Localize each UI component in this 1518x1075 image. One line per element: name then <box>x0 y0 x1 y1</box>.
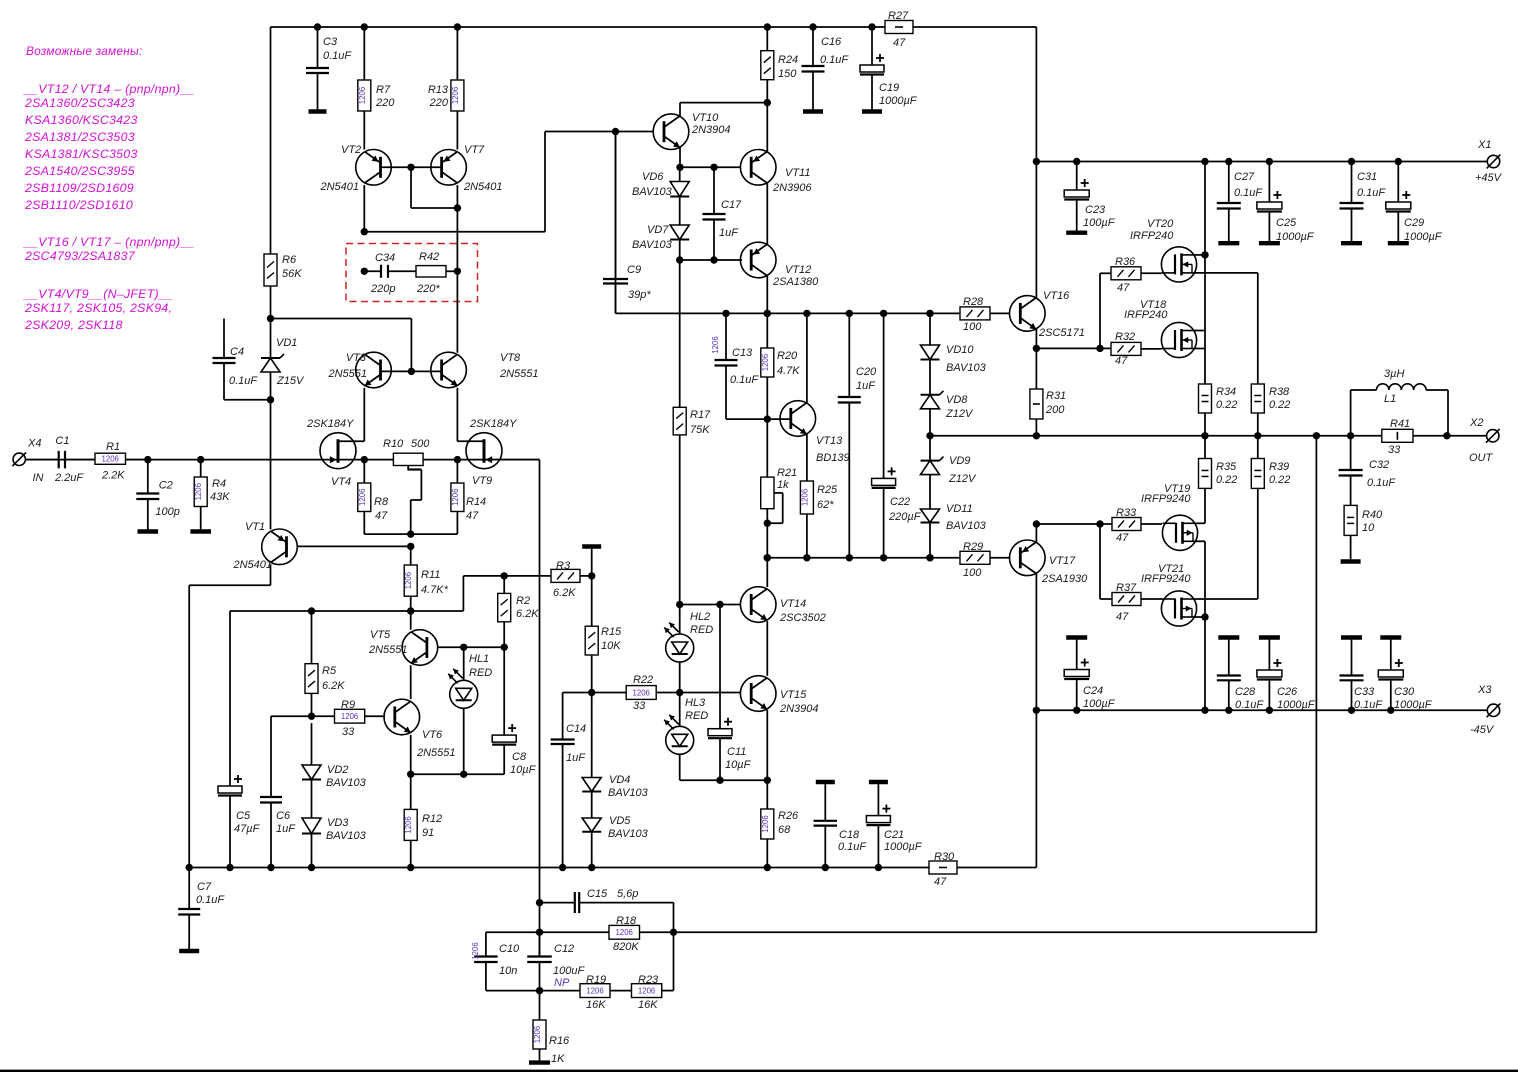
resistor R36 <box>1100 256 1161 348</box>
svg-text:L1: L1 <box>1384 393 1396 405</box>
svg-text:220*: 220* <box>416 283 440 295</box>
svg-text:C8: C8 <box>512 751 527 763</box>
svg-text:R30: R30 <box>934 851 955 863</box>
svg-text:X4: X4 <box>27 438 41 450</box>
terminal X3 <box>1470 684 1500 736</box>
svg-text:1206: 1206 <box>638 987 655 996</box>
svg-text:BAV103: BAV103 <box>946 362 987 374</box>
resistor R10 <box>361 438 431 466</box>
resistor R37 <box>1100 524 1162 623</box>
svg-text:C12: C12 <box>554 943 574 955</box>
svg-text:R15: R15 <box>601 626 622 638</box>
svg-text:1206: 1206 <box>711 336 720 353</box>
svg-text:1206: 1206 <box>404 816 413 833</box>
svg-text:100: 100 <box>963 567 982 579</box>
svg-text:68: 68 <box>778 824 791 836</box>
capacitor C10 <box>471 932 540 990</box>
svg-text:VT3: VT3 <box>346 352 367 364</box>
resistor R31 <box>1030 348 1066 439</box>
resistor R13 <box>428 23 464 111</box>
resistor R7 <box>358 23 395 111</box>
svg-text:1uF: 1uF <box>566 752 586 764</box>
svg-text:2SC4793/2SA1837: 2SC4793/2SA1837 <box>24 249 136 263</box>
transistor VT15 <box>740 676 818 715</box>
transistor VT19 <box>1141 483 1198 550</box>
diode VD5 <box>582 792 648 872</box>
wire VT19 leads <box>1197 523 1209 620</box>
wire VT3 emitter <box>338 388 364 442</box>
svg-text:VD8: VD8 <box>946 394 968 406</box>
svg-text:VT14: VT14 <box>780 598 806 610</box>
svg-text:VT7: VT7 <box>464 144 485 156</box>
capacitor C23 <box>1064 158 1115 233</box>
svg-text:R4: R4 <box>212 478 226 490</box>
svg-text:100µF: 100µF <box>1083 698 1116 710</box>
resistor R12 <box>404 774 442 871</box>
svg-text:VD7: VD7 <box>647 224 669 236</box>
svg-text:IRFP9240: IRFP9240 <box>1141 573 1191 585</box>
wire VT2 collector <box>361 128 620 236</box>
capacitor C8 <box>464 647 537 776</box>
svg-text:VT15: VT15 <box>780 689 807 701</box>
capacitor C1 <box>54 435 95 484</box>
svg-text:C16: C16 <box>821 36 842 48</box>
svg-text:+45V: +45V <box>1475 172 1503 184</box>
svg-text:150: 150 <box>778 68 797 80</box>
resistor R41 <box>1382 418 1451 456</box>
svg-text:33: 33 <box>342 726 355 738</box>
terminal X1 <box>1475 139 1503 184</box>
svg-text:VT8: VT8 <box>500 352 521 364</box>
svg-text:C29: C29 <box>1404 217 1424 229</box>
svg-text:C10: C10 <box>499 943 520 955</box>
svg-text:X2: X2 <box>1469 417 1483 429</box>
svg-text:VT4: VT4 <box>331 476 351 488</box>
svg-text:BAV103: BAV103 <box>608 828 649 840</box>
transistor VT21 <box>1141 563 1197 626</box>
svg-text:200: 200 <box>1045 404 1065 416</box>
svg-text:43K: 43K <box>210 491 230 503</box>
wire out rail <box>930 435 1487 437</box>
svg-text:2N5401: 2N5401 <box>319 181 359 193</box>
resistor R26 <box>761 780 799 871</box>
diode VD4 <box>582 693 648 800</box>
resistor R15 <box>585 576 622 696</box>
svg-text:R16: R16 <box>549 1035 570 1047</box>
svg-text:KSA1360/KSC3423: KSA1360/KSC3423 <box>25 113 138 127</box>
wire VT8 emitter <box>457 388 484 442</box>
wire base net <box>230 572 551 611</box>
capacitor C27 <box>1217 158 1264 243</box>
wire VT9 gate <box>484 459 540 461</box>
svg-text:1000µF: 1000µF <box>1276 231 1315 243</box>
svg-text:C13: C13 <box>732 347 753 359</box>
svg-text:VD1: VD1 <box>276 337 297 349</box>
svg-text:IRFP240: IRFP240 <box>1130 230 1174 242</box>
transistor VT18 <box>1124 299 1197 358</box>
svg-text:1uF: 1uF <box>719 227 739 239</box>
transistor VT14 <box>740 587 825 624</box>
svg-text:1206: 1206 <box>471 942 480 959</box>
svg-text:2SC3502: 2SC3502 <box>779 612 826 624</box>
zener VD8 <box>921 360 974 440</box>
svg-text:1206: 1206 <box>194 483 203 500</box>
transistor VT16 <box>1010 290 1085 339</box>
transistor VT2 <box>319 111 391 193</box>
resistor R5 <box>305 607 345 716</box>
resistor R30 <box>929 851 957 888</box>
diode VD7 <box>632 197 689 264</box>
svg-text:R13: R13 <box>428 84 449 96</box>
svg-text:VT12: VT12 <box>785 264 811 276</box>
resistor R4 <box>190 456 230 532</box>
transistor VT7 <box>431 111 503 193</box>
svg-text:R14: R14 <box>466 496 486 508</box>
svg-text:2SB1109/2SD1609: 2SB1109/2SD1609 <box>24 181 134 195</box>
svg-text:1206: 1206 <box>358 489 367 506</box>
svg-text:R27: R27 <box>888 10 909 22</box>
wire VT17 em <box>1033 520 1104 542</box>
resistor R2 <box>498 576 540 647</box>
svg-text:1206: 1206 <box>358 87 367 104</box>
svg-text:VT10: VT10 <box>692 112 719 124</box>
svg-text:56K: 56K <box>282 268 302 280</box>
resistor R19 <box>540 974 632 1011</box>
resistor R24 <box>761 23 798 102</box>
svg-text:1K: 1K <box>551 1053 565 1065</box>
svg-text:500: 500 <box>411 438 430 450</box>
resistor R35 <box>1199 436 1238 524</box>
svg-text:10: 10 <box>1362 522 1375 534</box>
capacitor C2 <box>136 456 180 532</box>
svg-text:2N5551: 2N5551 <box>368 644 408 656</box>
terminal X4 <box>12 438 58 485</box>
svg-text:R20: R20 <box>777 350 798 362</box>
svg-text:R9: R9 <box>341 699 355 711</box>
svg-text:2N3904: 2N3904 <box>779 703 819 715</box>
capacitor C21 <box>866 782 922 871</box>
svg-text:X3: X3 <box>1477 684 1492 696</box>
svg-text:C7: C7 <box>197 881 212 893</box>
border bottom <box>0 1070 1518 1072</box>
resistor R32 <box>1100 331 1161 367</box>
svg-text:1000µF: 1000µF <box>1277 699 1316 711</box>
svg-text:16K: 16K <box>638 999 658 1011</box>
resistor R21 <box>761 419 797 561</box>
led HL2 <box>664 605 713 663</box>
svg-text:R42: R42 <box>419 251 439 263</box>
svg-text:BAV103: BAV103 <box>326 777 367 789</box>
svg-text:62*: 62* <box>817 499 834 511</box>
capacitor C3 <box>306 23 352 111</box>
svg-text:1206: 1206 <box>341 712 358 721</box>
wire driver rail <box>767 557 931 559</box>
zener VD9 <box>921 436 977 509</box>
svg-text:C25: C25 <box>1276 217 1297 229</box>
zener VD1 <box>261 315 305 404</box>
svg-text:VT5: VT5 <box>370 629 391 641</box>
svg-text:RED: RED <box>690 624 713 636</box>
resistor R20 <box>761 310 800 423</box>
wire VT5 base <box>438 644 508 651</box>
capacitor C20 <box>838 310 877 562</box>
svg-text:R21: R21 <box>777 467 797 479</box>
capacitor C29 <box>1386 158 1443 243</box>
svg-text:VD6: VD6 <box>642 171 664 183</box>
svg-text:BAV103: BAV103 <box>632 239 673 251</box>
svg-text:R26: R26 <box>778 810 799 822</box>
svg-text:0.1uF: 0.1uF <box>1234 187 1263 199</box>
wire VT11-VT12 <box>766 183 768 244</box>
wire R9-C6 <box>260 716 312 871</box>
svg-text:Z12V: Z12V <box>948 473 977 485</box>
transistor VT3 <box>327 352 391 388</box>
svg-text:0.1uF: 0.1uF <box>196 894 225 906</box>
svg-text:BAV103: BAV103 <box>608 787 649 799</box>
transistor VT11 <box>714 150 812 195</box>
svg-text:2N3906: 2N3906 <box>772 182 812 194</box>
svg-text:R39: R39 <box>1269 461 1289 473</box>
wire VT21 leads <box>1196 599 1258 714</box>
capacitor C24 <box>1064 638 1115 715</box>
wire VT12 col <box>764 276 771 317</box>
diode VD11 <box>921 503 987 562</box>
svg-text:R28: R28 <box>963 296 984 308</box>
svg-text:47: 47 <box>1116 532 1129 544</box>
svg-text:2N5551: 2N5551 <box>416 747 456 759</box>
capacitor C11 <box>708 605 752 784</box>
svg-text:R29: R29 <box>963 541 983 553</box>
svg-text:R33: R33 <box>1116 507 1137 519</box>
wire VT14 base <box>676 601 740 608</box>
resistor R33 <box>1100 507 1162 544</box>
svg-text:C14: C14 <box>566 723 586 735</box>
svg-text:1000µF: 1000µF <box>1404 231 1443 243</box>
wire VT1 base <box>297 543 414 550</box>
wire bias rail <box>616 132 931 314</box>
svg-text:220: 220 <box>429 97 449 109</box>
svg-text:2.2uF: 2.2uF <box>54 472 84 484</box>
svg-text:C9: C9 <box>627 264 641 276</box>
svg-text:0.1uF: 0.1uF <box>1354 699 1383 711</box>
svg-text:__VT12 / VT14 – (pnp/npn)__: __VT12 / VT14 – (pnp/npn)__ <box>23 82 195 96</box>
transistor VT4 <box>306 418 356 488</box>
replacement notes <box>23 44 195 332</box>
svg-text:VD9: VD9 <box>949 455 970 467</box>
wire feedback <box>674 436 1317 933</box>
svg-text:820K: 820K <box>613 941 639 953</box>
svg-text:0.1uF: 0.1uF <box>730 374 759 386</box>
wire ground rail <box>189 867 929 869</box>
svg-text:1206: 1206 <box>761 354 770 371</box>
wire mos drains <box>1196 158 1209 384</box>
svg-text:100: 100 <box>963 321 982 333</box>
capacitor C33 <box>1340 638 1384 715</box>
svg-text:R34: R34 <box>1216 386 1236 398</box>
diode VD3 <box>302 780 367 872</box>
svg-text:R24: R24 <box>778 54 798 66</box>
svg-text:0.1uF: 0.1uF <box>1357 187 1386 199</box>
svg-text:1206: 1206 <box>761 815 770 832</box>
resistor R17 <box>673 260 711 605</box>
svg-text:R11: R11 <box>421 569 440 581</box>
svg-text:1206: 1206 <box>616 928 633 937</box>
svg-text:VT16: VT16 <box>1043 290 1070 302</box>
svg-text:C2: C2 <box>159 480 173 492</box>
svg-text:BAV103: BAV103 <box>326 830 367 842</box>
transistor VT13 <box>767 401 849 464</box>
svg-text:R17: R17 <box>690 409 711 421</box>
wire VT14 col <box>764 554 771 587</box>
wire R10 wiper <box>407 466 421 535</box>
svg-text:VT9: VT9 <box>472 475 492 487</box>
svg-text:R37: R37 <box>1116 582 1137 594</box>
wire VT10 emitter <box>676 148 717 172</box>
svg-text:1206: 1206 <box>533 1026 542 1043</box>
svg-text:R2: R2 <box>516 595 530 607</box>
svg-text:VD3: VD3 <box>327 817 349 829</box>
wire R6 branch <box>270 27 272 319</box>
svg-text:47: 47 <box>375 510 388 522</box>
wire VT16 col <box>1035 162 1037 298</box>
svg-text:VT20: VT20 <box>1147 218 1174 230</box>
svg-text:6.2K: 6.2K <box>516 608 539 620</box>
svg-text:6.2K: 6.2K <box>553 587 576 599</box>
wire VT16 em <box>1033 329 1104 352</box>
svg-text:47: 47 <box>1117 282 1130 294</box>
diode VD10 <box>921 310 987 374</box>
svg-text:100µF: 100µF <box>1083 217 1116 229</box>
svg-text:BAV103: BAV103 <box>946 520 987 532</box>
svg-text:C33: C33 <box>1354 686 1375 698</box>
svg-text:C28: C28 <box>1235 686 1256 698</box>
svg-text:IN: IN <box>33 472 44 484</box>
svg-text:Возможные замены:: Возможные замены: <box>26 44 142 58</box>
svg-text:1000µF: 1000µF <box>1394 699 1433 711</box>
svg-text:X1: X1 <box>1477 139 1491 151</box>
resistor R11 <box>404 546 448 614</box>
svg-text:1000µF: 1000µF <box>879 95 918 107</box>
node fb <box>1313 432 1320 439</box>
wire VT15 em <box>764 710 771 784</box>
svg-text:1000µF: 1000µF <box>884 841 923 853</box>
resistor R42 <box>416 251 461 295</box>
svg-text:220µF: 220µF <box>888 511 922 523</box>
svg-text:2SA1360/2SC3423: 2SA1360/2SC3423 <box>24 96 135 110</box>
svg-text:2SB1110/2SD1610: 2SB1110/2SD1610 <box>24 198 133 212</box>
svg-text:R6: R6 <box>282 254 297 266</box>
svg-text:C17: C17 <box>721 199 742 211</box>
capacitor C16 <box>802 23 850 111</box>
resistor R27 <box>885 10 913 49</box>
svg-text:10K: 10K <box>601 640 621 652</box>
transistor VT5 <box>368 611 438 665</box>
diode VD6 <box>632 167 689 198</box>
svg-text:R22: R22 <box>633 674 653 686</box>
svg-text:2SK184Y: 2SK184Y <box>306 418 354 430</box>
svg-text:BAV103: BAV103 <box>632 186 673 198</box>
ground R3 <box>582 547 601 576</box>
svg-text:R41: R41 <box>1390 418 1410 430</box>
resistor R38 <box>1251 384 1290 439</box>
wire VT8 collector <box>456 271 458 352</box>
svg-text:R18: R18 <box>616 915 637 927</box>
capacitor C19 <box>860 23 918 111</box>
svg-text:47: 47 <box>893 37 906 49</box>
dashed box <box>346 244 478 302</box>
svg-text:0.22: 0.22 <box>1269 399 1290 411</box>
svg-text:47: 47 <box>466 510 479 522</box>
svg-text:6.2K: 6.2K <box>322 680 345 692</box>
terminal X2 <box>1469 417 1500 464</box>
svg-text:0.1uF: 0.1uF <box>1235 699 1264 711</box>
svg-text:__VT16 / VT17 – (npn/pnp)__: __VT16 / VT17 – (npn/pnp)__ <box>23 235 195 249</box>
svg-text:R38: R38 <box>1269 386 1290 398</box>
svg-text:2SK184Y: 2SK184Y <box>469 418 517 430</box>
svg-text:C21: C21 <box>884 829 904 841</box>
svg-text:C24: C24 <box>1083 685 1103 697</box>
svg-text:10µF: 10µF <box>725 759 752 771</box>
svg-text:C34: C34 <box>375 252 395 264</box>
wire left bias <box>271 319 412 372</box>
svg-text:R36: R36 <box>1115 256 1136 268</box>
wire VT7 collector <box>456 185 458 271</box>
svg-text:__VT4/VT9__(N–JFET)__: __VT4/VT9__(N–JFET)__ <box>23 287 173 301</box>
svg-text:33: 33 <box>633 700 646 712</box>
svg-text:BD139: BD139 <box>816 452 850 464</box>
svg-text:C3: C3 <box>323 36 338 48</box>
svg-text:1k: 1k <box>777 479 789 491</box>
resistor R3 <box>551 560 595 599</box>
svg-text:2SA1381/2SC3503: 2SA1381/2SC3503 <box>24 130 135 144</box>
svg-text:R5: R5 <box>322 665 337 677</box>
svg-text:2SC5171: 2SC5171 <box>1038 327 1085 339</box>
svg-text:4.7K: 4.7K <box>777 365 800 377</box>
svg-text:KSA1381/KSC3503: KSA1381/KSC3503 <box>25 147 138 161</box>
svg-text:RED: RED <box>469 667 492 679</box>
resistor R34 <box>1199 384 1238 439</box>
svg-text:VT17: VT17 <box>1049 555 1076 567</box>
capacitor C13 <box>711 310 767 419</box>
svg-text:VD5: VD5 <box>609 815 631 827</box>
wire VT11 em <box>766 103 768 152</box>
svg-text:VT13: VT13 <box>816 435 843 447</box>
svg-text:-45V: -45V <box>1470 724 1495 736</box>
svg-text:R3: R3 <box>556 560 571 572</box>
svg-text:2N5551: 2N5551 <box>327 368 367 380</box>
svg-text:VD11: VD11 <box>946 503 973 515</box>
wire fb vertical <box>539 460 541 957</box>
transistor VT12 <box>740 242 819 288</box>
svg-text:5,6p: 5,6p <box>617 888 638 900</box>
svg-text:C26: C26 <box>1277 686 1298 698</box>
capacitor C12 <box>527 932 585 994</box>
resistor R8 <box>358 460 411 534</box>
svg-text:2N3904: 2N3904 <box>691 124 731 136</box>
wire VT1 collector <box>186 564 271 871</box>
capacitor C7 <box>178 868 225 952</box>
svg-text:2.2K: 2.2K <box>101 470 125 482</box>
svg-text:10µF: 10µF <box>510 764 537 776</box>
svg-text:2N5401: 2N5401 <box>232 559 272 571</box>
svg-text:Z12V: Z12V <box>945 408 974 420</box>
wire VT3-VT8 bases <box>381 368 442 375</box>
svg-text:NP: NP <box>554 977 570 989</box>
wire VT6 emitter <box>407 735 464 778</box>
transistor VT8 <box>431 352 539 388</box>
capacitor C31 <box>1340 158 1387 243</box>
svg-text:C32: C32 <box>1369 459 1389 471</box>
